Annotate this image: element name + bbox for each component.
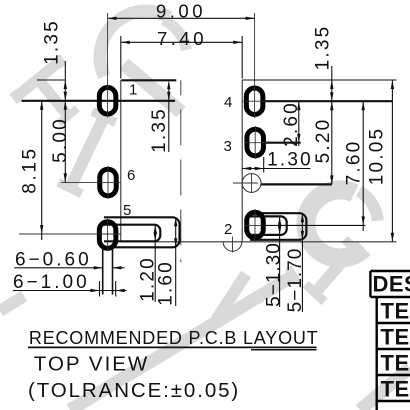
svg-text:1.30: 1.30 <box>267 150 313 171</box>
svg-text:2.60: 2.60 <box>281 101 302 147</box>
svg-text:DESI: DESI <box>373 272 410 297</box>
svg-text:7.60: 7.60 <box>344 140 365 186</box>
svg-text:8.15: 8.15 <box>20 146 41 193</box>
svg-text:TEL: TEL <box>381 299 410 324</box>
svg-text:6−1.00: 6−1.00 <box>13 272 90 293</box>
svg-text:4: 4 <box>224 94 232 111</box>
svg-text:1: 1 <box>129 82 137 99</box>
svg-text:TEL: TEL <box>381 377 410 402</box>
svg-text:5: 5 <box>123 202 131 219</box>
svg-text:10.05: 10.05 <box>366 127 387 186</box>
svg-text:5−1.70: 5−1.70 <box>285 248 306 313</box>
svg-text:(TOLRANCE:±0.05): (TOLRANCE:±0.05) <box>28 379 240 402</box>
svg-text:TEL: TEL <box>381 351 410 376</box>
svg-text:5.00: 5.00 <box>50 117 71 163</box>
svg-text:2: 2 <box>224 221 232 238</box>
svg-text:5.20: 5.20 <box>313 118 334 164</box>
svg-text:6−0.60: 6−0.60 <box>15 250 92 271</box>
svg-text:3: 3 <box>224 138 232 155</box>
svg-text:RECOMMENDED P.C.B LAYOUT: RECOMMENDED P.C.B LAYOUT <box>29 328 319 348</box>
svg-text:TOP VIEW: TOP VIEW <box>34 353 150 376</box>
svg-text:1.35: 1.35 <box>313 25 334 71</box>
svg-text:7.40: 7.40 <box>157 28 207 49</box>
svg-text:6: 6 <box>127 167 135 184</box>
svg-text:5−1.30: 5−1.30 <box>264 242 285 307</box>
svg-text:9.00: 9.00 <box>156 1 206 22</box>
svg-text:1.60: 1.60 <box>156 260 177 306</box>
svg-text:TEL: TEL <box>381 325 410 350</box>
svg-text:1.35: 1.35 <box>42 19 63 65</box>
svg-text:1.35: 1.35 <box>149 107 170 153</box>
